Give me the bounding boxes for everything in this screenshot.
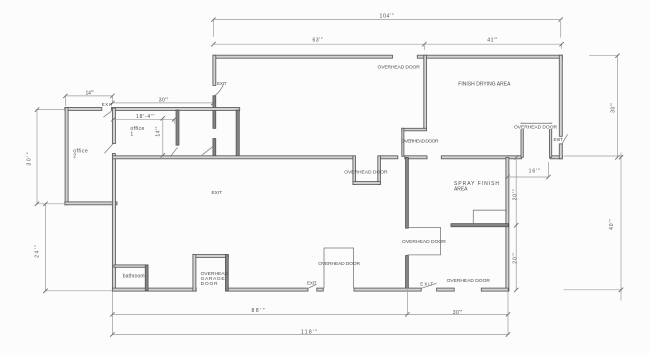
svg-text:EXIT: EXIT: [217, 81, 227, 86]
svg-text:30'": 30'": [611, 103, 617, 113]
dimension: 14 feet top left: [63, 90, 114, 106]
svg-text:EXIT: EXIT: [554, 137, 564, 142]
dimension: 40 feet right side: [564, 153, 624, 301]
door swing: south-east EXIT door: [421, 283, 436, 288]
svg-text:88'": 88'": [252, 308, 265, 314]
wall: east exterior below EXIT: [559, 144, 562, 159]
dimension: 118 feet bottom: [110, 329, 510, 336]
wall: office1 east wall: [176, 110, 179, 145]
wall: spray area step wall: [451, 224, 508, 227]
dimension: 63 feet / 41 feet: [211, 37, 564, 50]
svg-text:24'": 24'": [34, 245, 40, 258]
wall: garage recess west: [193, 255, 196, 292]
svg-text:EXIT: EXIT: [102, 102, 114, 107]
svg-text:14'": 14'": [156, 126, 162, 136]
svg-text:OVERHEAD: OVERHEAD: [201, 271, 229, 277]
svg-text:30'": 30'": [159, 97, 169, 103]
dimension: 20 feet + 20 feet spray area: [513, 155, 519, 292]
wall: office2 north wall: [65, 108, 102, 111]
svg-text:OVERHEAD DOOR: OVERHEAD DOOR: [447, 278, 491, 284]
door swing: east EXIT door: [562, 134, 568, 144]
door swing: south-west EXIT door: [309, 284, 316, 288]
svg-text:OVERHEAD DOOR: OVERHEAD DOOR: [378, 64, 421, 70]
svg-text:14'": 14'": [86, 90, 94, 96]
dimension: 16 feet spray area: [505, 162, 550, 179]
door swing: middle room door: [202, 146, 213, 155]
wall: door pocket north: [521, 123, 552, 125]
wall: spray area west wall lower: [406, 256, 409, 292]
wall: top exterior 63' section: [213, 55, 393, 58]
wall: top exterior 41' section: [417, 55, 562, 58]
svg-text:1: 1: [130, 132, 133, 138]
wall: main interior long wall y157 segment 4: [441, 156, 521, 159]
wall: finish drying area west wall: [424, 55, 427, 130]
wall: west interior x214 mid segment: [213, 96, 216, 129]
wall: overhead-door bay B east side: [378, 156, 381, 185]
wall: west exterior x114 lower: [112, 154, 115, 292]
wall: main interior long wall y157 segment 3: [405, 156, 427, 159]
dimension: 88 feet / 30 feet bottom: [110, 288, 510, 335]
wall: south exterior segment 1: [112, 288, 196, 291]
wall: east exterior above EXIT: [559, 55, 562, 136]
svg-text:FINISH DRYING AREA: FINISH DRYING AREA: [458, 82, 511, 88]
wall: main interior long wall y157 segment 5: [550, 156, 562, 159]
wall: overhead-door bay B west side: [353, 156, 356, 185]
wall: bathroom east: [145, 265, 148, 290]
svg-text:104'": 104'": [380, 13, 394, 19]
wall: office2 west wall: [65, 108, 68, 205]
wall: south exterior segment 6: [481, 288, 508, 291]
label: OVERHEAD DOOR pocket: [513, 124, 558, 129]
wall: office row north wall: [112, 108, 240, 111]
svg-text:30'": 30'": [453, 310, 463, 316]
door: overhead door E thin recess: [324, 248, 354, 288]
dimension: 30 feet left side: [27, 107, 64, 206]
wall: spray area east wall: [506, 157, 509, 291]
svg-text:DOOR: DOOR: [201, 281, 218, 287]
wall: office2 south wall: [65, 202, 117, 205]
svg-text:bathroom: bathroom: [123, 274, 145, 280]
door swing: office1/office2 door: [105, 144, 114, 153]
dimension: 24 feet left side: [34, 202, 112, 293]
svg-text:OVERHEAD DOOR: OVERHEAD DOOR: [401, 138, 439, 144]
wall: door pocket east: [549, 123, 551, 157]
wall: spray area west wall upper: [406, 157, 409, 228]
wall: office block east wall: [236, 110, 239, 156]
svg-text:EXIT: EXIT: [420, 282, 433, 287]
svg-text:2: 2: [73, 154, 76, 160]
svg-text:63'": 63'": [313, 37, 323, 43]
svg-text:16'": 16'": [529, 169, 540, 175]
svg-text:20'": 20'": [513, 252, 519, 263]
dimension: 30 feet top office row: [110, 97, 215, 105]
svg-text:EXIT: EXIT: [307, 280, 317, 285]
svg-text:OVERHEAD DOOR: OVERHEAD DOOR: [402, 239, 446, 245]
svg-text:30'": 30'": [27, 152, 33, 165]
dimension: 14 feet office1 vertical: [156, 116, 165, 158]
door swing: west EXIT door: [215, 85, 224, 96]
bench: spray area step thin outline: [473, 210, 507, 223]
wall: south exterior segment 4: [354, 288, 421, 291]
dimension: 104 feet top: [211, 13, 563, 37]
svg-text:OVERHEAD DOOR: OVERHEAD DOOR: [344, 170, 388, 176]
wall: west wall x114 upper (office1 left): [112, 108, 115, 144]
svg-text:41'": 41'": [487, 38, 497, 44]
wall: jog wall horizontal y129: [402, 128, 427, 131]
wall: west upper exterior above EXIT door: [213, 55, 216, 85]
wall: south exterior segment 3: [317, 288, 324, 291]
svg-text:EXIT: EXIT: [212, 190, 223, 196]
svg-text:18'-4"': 18'-4"': [136, 114, 155, 120]
dimension: 18'-4" office1: [111, 114, 176, 124]
wall: overhead-door bay B south side: [353, 182, 381, 185]
wall: door pocket west: [521, 123, 523, 157]
wall: bathroom north: [114, 265, 148, 267]
dimension: 30 feet right side: [589, 54, 620, 160]
wall: garage recess east: [225, 255, 228, 292]
door swing: office1 east door: [170, 147, 177, 156]
svg-text:OVERHEAD DOOR: OVERHEAD DOOR: [514, 124, 557, 130]
wall: main interior long wall y157 segment 1: [112, 156, 353, 159]
svg-text:OVERHEAD DOOR: OVERHEAD DOOR: [318, 261, 360, 267]
wall: jog wall vertical x403: [402, 128, 404, 156]
svg-text:40'": 40'": [609, 219, 615, 230]
wall: garage recess north: [193, 255, 228, 258]
door swing: office2 north EXIT: [103, 111, 111, 117]
wall: south exterior segment 5: [437, 288, 455, 291]
svg-text:AREA: AREA: [454, 187, 468, 193]
wall: main interior long wall y157 segment 2: [380, 156, 397, 159]
wall: south exterior segment 2: [226, 288, 308, 291]
door: overhead-door bay C thin outline: [408, 227, 441, 255]
svg-text:20'": 20'": [513, 189, 519, 200]
wall: west interior x214 lower segment: [213, 139, 216, 156]
